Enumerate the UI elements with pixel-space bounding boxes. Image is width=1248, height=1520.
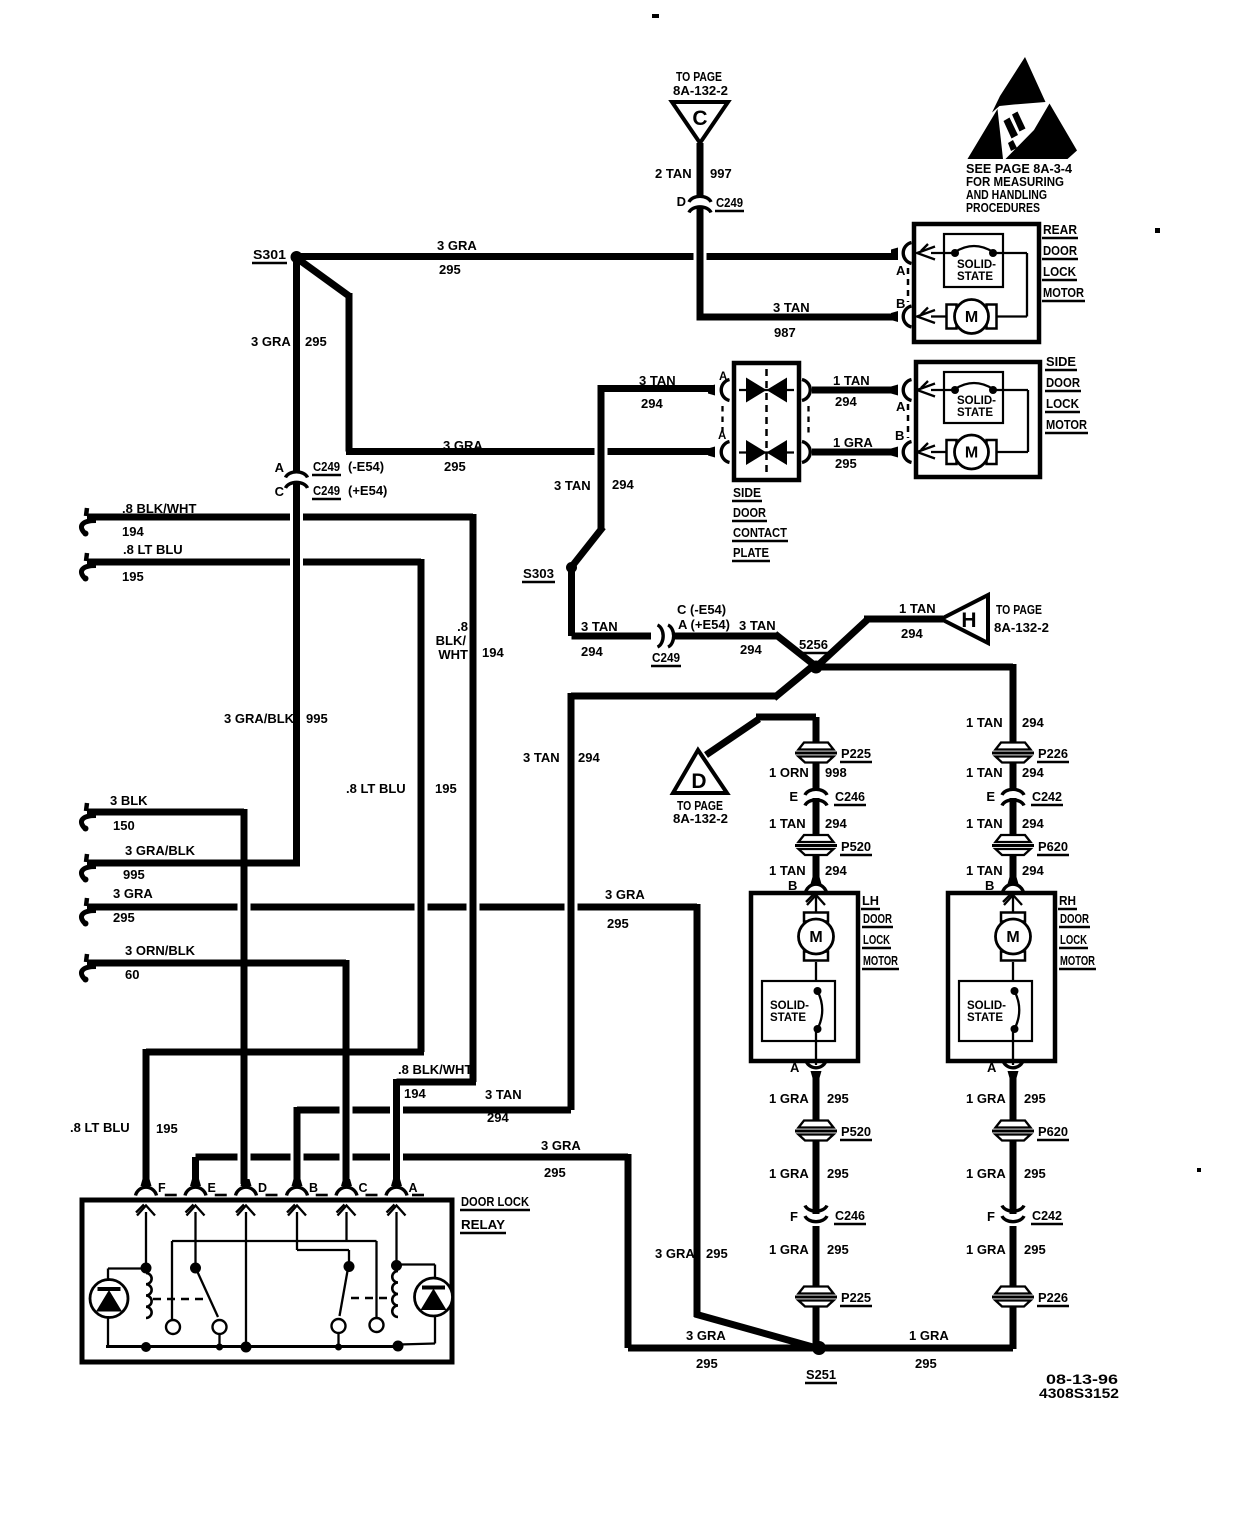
connector dash between pins (907, 268, 910, 302)
pin B wire tip (891, 447, 898, 458)
svg-text:.8 BLK/WHT: .8 BLK/WHT (398, 1062, 472, 1077)
svg-text:295: 295 (827, 1166, 849, 1181)
svg-text:294: 294 (578, 750, 600, 765)
svg-text:.8: .8 (457, 619, 468, 634)
svg-text:3 GRA: 3 GRA (686, 1328, 726, 1343)
wire 3 TAN 294 from C249 to 5256 (673, 633, 778, 640)
svg-text:1 TAN: 1 TAN (769, 816, 806, 831)
svg-text:294: 294 (825, 816, 847, 831)
lower contact line (739, 451, 794, 453)
top registration speck (652, 14, 659, 18)
svg-text:A: A (896, 399, 906, 414)
pin B arrow (917, 446, 935, 459)
pin B arc (rear motor) (903, 306, 911, 327)
svg-text:.8 BLK/WHT: .8 BLK/WHT (122, 501, 196, 516)
svg-text:MOTOR: MOTOR (1046, 417, 1088, 432)
svg-text:DOOR LOCK: DOOR LOCK (461, 1194, 530, 1209)
relay pin B wire tip (292, 1179, 303, 1186)
side door contact plate box (734, 363, 799, 480)
svg-text:8A-132-2: 8A-132-2 (994, 620, 1049, 635)
door lock relay box (82, 1200, 452, 1362)
svg-text:B: B (896, 296, 905, 311)
svg-text:3 GRA/BLK: 3 GRA/BLK (125, 843, 196, 858)
relay pin D wire tip (241, 1179, 252, 1186)
grommet P520 (799, 835, 834, 842)
svg-text:.8 LT BLU: .8 LT BLU (123, 542, 183, 557)
grommet P520 (lower) (799, 1121, 834, 1128)
connector dash (215, 1194, 227, 1197)
junction (pin D) (241, 1342, 252, 1353)
wire 1 TAN 294 (1010, 762, 1017, 790)
off-page arrow 3 GRA/BLK (86, 854, 87, 862)
svg-text:REAR: REAR (1043, 222, 1078, 237)
splice S303 (566, 562, 577, 573)
relay pin E arrow (187, 1206, 205, 1216)
svg-text:S251: S251 (806, 1367, 836, 1382)
svg-text:A: A (896, 263, 906, 278)
relay internal wire from pin C (345, 1212, 347, 1241)
relay pin F arc (136, 1187, 157, 1195)
svg-text:294: 294 (835, 394, 857, 409)
svg-text:294: 294 (740, 642, 762, 657)
svg-text:A: A (275, 460, 285, 475)
wire 3 GRA 295 horizontal y=1157 (196, 1154, 238, 1161)
svg-text:3 TAN: 3 TAN (773, 300, 810, 315)
relay pin F wire tip (141, 1179, 152, 1186)
svg-text:SOLID-: SOLID- (957, 259, 996, 271)
pin B wire tip (1008, 877, 1019, 884)
junction (E/blade) (190, 1263, 201, 1274)
pin A arrow (917, 384, 935, 397)
svg-text:M: M (965, 445, 978, 462)
svg-text:1 GRA: 1 GRA (966, 1091, 1006, 1106)
wire diagonal into 5256 (775, 634, 818, 668)
relay pin A arrow (388, 1206, 406, 1216)
contact stem down (337, 1333, 339, 1347)
svg-text:C242: C242 (1032, 789, 1062, 804)
stem to right switch right contact (375, 1241, 377, 1318)
svg-text:C: C (275, 484, 285, 499)
svg-text:C246: C246 (835, 789, 865, 804)
relay pin D arc (236, 1187, 257, 1195)
junction (F/coil) (141, 1263, 152, 1274)
wire from right diode to bottom (434, 1315, 436, 1344)
svg-text:P226: P226 (1038, 746, 1068, 761)
relay pin C arrow (338, 1206, 356, 1216)
svg-text:294: 294 (612, 477, 634, 492)
svg-text:3 TAN: 3 TAN (739, 618, 776, 633)
side door lock motor box (916, 362, 1040, 477)
internal wire (993, 252, 1027, 254)
wire 3 GRA vertical x=697 (694, 904, 701, 1317)
motor M (side) (947, 440, 957, 464)
svg-text:P620: P620 (1038, 839, 1068, 854)
junction (B/blade) (344, 1261, 355, 1272)
wire 1 TAN 294 (1010, 798, 1017, 838)
svg-text:3 TAN: 3 TAN (523, 750, 560, 765)
ESD sensitive-device warning symbol (968, 57, 1078, 159)
connector dash (316, 1194, 328, 1197)
svg-text:DOOR: DOOR (1043, 243, 1078, 258)
svg-text:D: D (258, 1181, 267, 1195)
off-page arrow 3 ORN/BLK (86, 954, 87, 962)
relay wire pin C to outer contacts (172, 1240, 377, 1242)
svg-text:.8 LT BLU: .8 LT BLU (346, 781, 406, 796)
svg-text:8A-132-2: 8A-132-2 (673, 811, 728, 826)
svg-text:194: 194 (404, 1086, 426, 1101)
plate left pin A (upper) (721, 380, 729, 401)
svg-text:295: 295 (544, 1165, 566, 1180)
wire 3 TAN 294 horizontal to relay pin B (297, 1107, 340, 1114)
svg-text:8A-132-2: 8A-132-2 (673, 83, 728, 98)
pin B wire tip (811, 877, 822, 884)
splice S251 (812, 1341, 826, 1355)
connector dash (165, 1194, 177, 1197)
svg-text:SOLID-: SOLID- (967, 1000, 1006, 1012)
svg-text:1 TAN: 1 TAN (966, 715, 1003, 730)
svg-text:AND HANDLING: AND HANDLING (966, 188, 1047, 202)
wire 1 GRA 295 (1010, 1071, 1017, 1122)
pin A wire tip (811, 1071, 822, 1078)
wire drop to relay pin F (143, 1049, 150, 1184)
svg-text:3 GRA: 3 GRA (443, 438, 483, 453)
grommet P620 (996, 835, 1031, 842)
svg-text:SIDE: SIDE (1046, 354, 1076, 369)
svg-text:PROCEDURES: PROCEDURES (966, 201, 1040, 215)
svg-text:295: 295 (1024, 1242, 1046, 1257)
wire 1 TAN 294 to triangle H (864, 616, 943, 623)
svg-text:F: F (987, 1209, 995, 1224)
connector C242 (E) (1002, 789, 1024, 795)
wire 3 TAN vertical x=601 (598, 385, 605, 529)
grommet P226 (lower) (996, 1287, 1031, 1294)
off-page connector triangle D (673, 750, 727, 793)
plate left pin A (lower) (721, 442, 729, 463)
right switch blade (340, 1271, 348, 1316)
wire 3 ORN/BLK 60 (87, 960, 346, 967)
relay pin C wire tip (341, 1179, 352, 1186)
svg-text:C: C (359, 1181, 368, 1195)
svg-text:STATE: STATE (967, 1012, 1003, 1024)
svg-text:08-13-96: 08-13-96 (1046, 1372, 1119, 1387)
svg-text:3 TAN: 3 TAN (485, 1087, 522, 1102)
connector dash between pins (907, 404, 910, 438)
switch contact (332, 1319, 346, 1333)
junction (A/coil) (391, 1260, 402, 1271)
motor M (rear) (947, 305, 957, 329)
wire .8 BLK/WHT vertical x=473 (470, 514, 477, 1082)
svg-text:1 TAN: 1 TAN (769, 863, 806, 878)
svg-text:MOTOR: MOTOR (1043, 285, 1085, 300)
svg-text:D: D (677, 194, 686, 209)
off-page arrow .8 BLK/WHT (86, 508, 87, 516)
wire 3 GRA 295 (S301 to rear motor pin A) (300, 253, 694, 260)
svg-text:3 GRA: 3 GRA (541, 1138, 581, 1153)
svg-text:3 TAN: 3 TAN (639, 373, 676, 388)
svg-text:987: 987 (774, 325, 796, 340)
svg-text:150: 150 (113, 818, 135, 833)
svg-text:294: 294 (1022, 715, 1044, 730)
pin A arc below motor (806, 1060, 827, 1068)
svg-text:BLK/: BLK/ (436, 633, 467, 648)
wire 3 TAN 294 from contact plate upper pin (601, 385, 715, 392)
svg-text:294: 294 (641, 396, 663, 411)
svg-text:1 TAN: 1 TAN (966, 816, 1003, 831)
wire 3 GRA 295 to contact plate pin (346, 448, 595, 455)
wire 3 TAN 987 to rear motor pin B (700, 314, 898, 321)
grommet P620 (lower) (996, 1121, 1031, 1128)
svg-text:995: 995 (306, 711, 328, 726)
svg-text:FOR MEASURING: FOR MEASURING (966, 175, 1064, 189)
svg-text:WHT: WHT (438, 647, 468, 662)
svg-text:RH: RH (1059, 893, 1076, 908)
svg-text:294: 294 (487, 1110, 509, 1125)
svg-text:MOTOR: MOTOR (1060, 953, 1095, 968)
svg-text:294: 294 (1022, 816, 1044, 831)
RH door lock motor box (948, 893, 1055, 1061)
wire 3 GRA 295 long horizontal (87, 904, 238, 911)
pin B arrow (917, 310, 935, 323)
mechanical link (left) (153, 1298, 209, 1301)
wire 1 TAN diagonal from 5256 up (814, 620, 867, 669)
svg-text:295: 295 (1024, 1091, 1046, 1106)
svg-text:E: E (208, 1181, 216, 1195)
svg-text:P225: P225 (841, 1290, 871, 1305)
contact plate center dashed line (765, 369, 768, 475)
relay pin C arc (336, 1187, 357, 1195)
svg-text:294: 294 (1022, 863, 1044, 878)
svg-text:995: 995 (123, 867, 145, 882)
internal wire (993, 389, 1028, 391)
wire .8 LT BLU horizontal to relay pin F drop (146, 1049, 424, 1056)
off-page connector triangle H (941, 595, 988, 643)
relay internal bottom wire (106, 1345, 399, 1348)
svg-text:P226: P226 (1038, 1290, 1068, 1305)
wire 1 ORN 998 (813, 762, 820, 790)
svg-text:SEE PAGE 8A-3-4: SEE PAGE 8A-3-4 (966, 162, 1072, 176)
switch contact (213, 1320, 227, 1334)
svg-text:P520: P520 (841, 1124, 871, 1139)
relay pin E arc (185, 1187, 206, 1195)
wire 3 TAN horizontal y=696 (571, 693, 778, 700)
off-page arrow 3 GRA (86, 898, 87, 906)
svg-text:SOLID-: SOLID- (770, 1000, 809, 1012)
off-page connector triangle C (672, 102, 728, 143)
svg-text:295: 295 (444, 459, 466, 474)
wire 3 TAN drop to relay pin B (294, 1107, 301, 1184)
svg-text:4308S3152: 4308S3152 (1039, 1386, 1119, 1401)
wire .8 BLK/WHT horizontal to relay pin A drop (397, 1079, 477, 1086)
svg-text:PLATE: PLATE (733, 545, 769, 560)
svg-text:RELAY: RELAY (461, 1217, 505, 1232)
svg-text:(-E54): (-E54) (348, 459, 384, 474)
switch contact (166, 1320, 180, 1334)
dash between right pins (807, 406, 809, 437)
left switch blade (198, 1272, 219, 1317)
junction (216, 1344, 223, 1351)
svg-text:B: B (309, 1181, 318, 1195)
svg-text:1 GRA: 1 GRA (833, 435, 873, 450)
svg-text:.8 LT BLU: .8 LT BLU (70, 1120, 130, 1135)
svg-text:1 GRA: 1 GRA (769, 1166, 809, 1181)
splice S301 (291, 251, 303, 263)
svg-text:998: 998 (825, 765, 847, 780)
wire to right diode (397, 1263, 436, 1265)
svg-text:295: 295 (827, 1091, 849, 1106)
svg-text:LH: LH (862, 893, 879, 908)
svg-text:LOCK: LOCK (1046, 396, 1080, 411)
wire 1 TAN 294 (813, 853, 820, 881)
wire to left diode (108, 1267, 146, 1269)
svg-text:STATE: STATE (770, 1012, 806, 1024)
svg-text:195: 195 (156, 1121, 178, 1136)
relay internal wire from pin F (145, 1212, 147, 1264)
svg-text:295: 295 (1024, 1166, 1046, 1181)
svg-text:F: F (158, 1181, 166, 1195)
svg-text:5256: 5256 (799, 637, 828, 652)
svg-text:TO PAGE: TO PAGE (676, 69, 722, 84)
svg-text:3 TAN: 3 TAN (581, 619, 618, 634)
svg-text:3 GRA: 3 GRA (437, 238, 477, 253)
motor M (RH) (1001, 913, 1025, 922)
relay pin F arrow (137, 1206, 155, 1216)
svg-text:DOOR: DOOR (1046, 375, 1081, 390)
pin B arrow (807, 895, 825, 905)
upper contact bowtie (746, 378, 767, 403)
svg-text:194: 194 (122, 524, 144, 539)
svg-text:295: 295 (706, 1246, 728, 1261)
svg-text:SOLID-: SOLID- (957, 395, 996, 407)
svg-text:295: 295 (696, 1356, 718, 1371)
relay pin D arrow (237, 1206, 255, 1216)
connector C246 (E) (805, 789, 827, 795)
svg-text:295: 295 (827, 1242, 849, 1257)
off-page arrow 3 BLK (86, 803, 87, 811)
svg-text:1 ORN: 1 ORN (769, 765, 809, 780)
svg-text:3 GRA: 3 GRA (113, 886, 153, 901)
svg-text:C249: C249 (313, 483, 340, 498)
svg-text:S303: S303 (523, 566, 554, 581)
contact stem down (218, 1334, 220, 1347)
svg-text:295: 295 (915, 1356, 937, 1371)
svg-text:M: M (1006, 929, 1019, 946)
svg-text:295: 295 (607, 916, 629, 931)
svg-text:DOOR: DOOR (1060, 911, 1089, 926)
lower contact bowtie (746, 440, 767, 465)
pin B arc (side motor) (903, 442, 911, 463)
off-page arrow .8 LT BLU (86, 553, 87, 561)
svg-text:1 GRA: 1 GRA (966, 1242, 1006, 1257)
LH solid-state module (762, 981, 835, 1041)
svg-text:A: A (409, 1181, 418, 1195)
upper contact line (739, 389, 794, 391)
pin A wire tip (891, 385, 898, 396)
svg-text:295: 295 (439, 262, 461, 277)
wire from left diode to bottom (107, 1316, 109, 1346)
wire .8 LT BLU vertical x=421 (418, 559, 425, 1052)
wire 3 GRA/BLK 995 vertical below C249 (293, 483, 300, 867)
pin A wire tip (891, 248, 898, 259)
relay wire pin B jog (297, 1249, 349, 1251)
pin A arc (rear motor) (903, 243, 911, 264)
svg-text:STATE: STATE (957, 271, 993, 283)
svg-text:A: A (987, 1060, 997, 1075)
pin A arrow (917, 247, 935, 260)
svg-text:1 TAN: 1 TAN (966, 863, 1003, 878)
wire .8 LT BLU 195 (87, 559, 290, 566)
wire 1 TAN 294 (813, 798, 820, 838)
relay coil (left) (146, 1273, 152, 1318)
svg-text:P520: P520 (841, 839, 871, 854)
relay pin A wire tip (391, 1179, 402, 1186)
wire 1 TAN 294 (1010, 853, 1017, 881)
svg-text:3 GRA: 3 GRA (251, 334, 291, 349)
RH solid-state module (959, 981, 1032, 1041)
relay internal wire from pin B (296, 1212, 298, 1250)
svg-text:295: 295 (835, 456, 857, 471)
svg-text:LOCK: LOCK (1043, 264, 1077, 279)
svg-text:1 GRA: 1 GRA (769, 1242, 809, 1257)
svg-text:1 TAN: 1 TAN (899, 601, 936, 616)
wire 3 GRA diagonal from S301 (298, 259, 349, 296)
svg-text:DOOR: DOOR (863, 911, 892, 926)
wire 3 TAN from S303 down (568, 565, 575, 636)
svg-text:C249: C249 (313, 459, 340, 474)
svg-text:CONTACT: CONTACT (733, 525, 787, 540)
svg-text:A: A (790, 1060, 800, 1075)
svg-text:(+E54): (+E54) (348, 483, 387, 498)
svg-text:1 TAN: 1 TAN (966, 765, 1003, 780)
connector C249 (D) on 2 TAN wire (689, 196, 711, 202)
pin B wire tip (891, 311, 898, 322)
relay coil (right) (392, 1271, 398, 1317)
wire 3 ORN/BLK vertical to relay pin C (343, 960, 350, 1184)
wire 1 GRA 295 (813, 1071, 820, 1122)
wire 3 GRA 295 vertical from S301 (293, 257, 300, 471)
mechanical link (right) (351, 1297, 391, 1300)
svg-text:295: 295 (305, 334, 327, 349)
svg-text:E: E (986, 789, 995, 804)
wire 3 BLK vertical to relay pin D (241, 809, 248, 1184)
switch contact (370, 1318, 384, 1332)
motor M (LH) (804, 913, 828, 922)
relay pin E wire tip (190, 1179, 201, 1186)
svg-text:294: 294 (901, 626, 923, 641)
grommet P225 (lower) (799, 1287, 834, 1294)
svg-text:997: 997 (710, 166, 732, 181)
svg-text:P620: P620 (1038, 1124, 1068, 1139)
junction (141, 1342, 151, 1352)
wire 1 GRA 295 plate to side motor (812, 449, 898, 456)
svg-text:P225: P225 (841, 746, 871, 761)
plate right pin (upper) (802, 380, 810, 401)
svg-text:C249: C249 (652, 650, 680, 665)
pin A arc below motor (1003, 1060, 1024, 1068)
wire diagonal from triangle D (706, 719, 759, 755)
side motor solid-state module (944, 372, 1003, 423)
relay pin B arc (287, 1187, 308, 1195)
relay internal wire from pin E (194, 1212, 196, 1264)
dash between left pins (721, 406, 723, 437)
wire 3 GRA vertical x=628 (625, 1154, 632, 1348)
wire 3 GRA/BLK 995 horizontal (87, 860, 297, 867)
stem to left switch left contact (171, 1241, 173, 1320)
svg-text:1 TAN: 1 TAN (833, 373, 870, 388)
svg-text:C242: C242 (1032, 1208, 1062, 1223)
wire 1 TAN 294 down from 5256 to P226 (1010, 664, 1017, 744)
svg-text:M: M (965, 309, 978, 326)
wire .8 BLK/WHT 194 (87, 514, 290, 521)
